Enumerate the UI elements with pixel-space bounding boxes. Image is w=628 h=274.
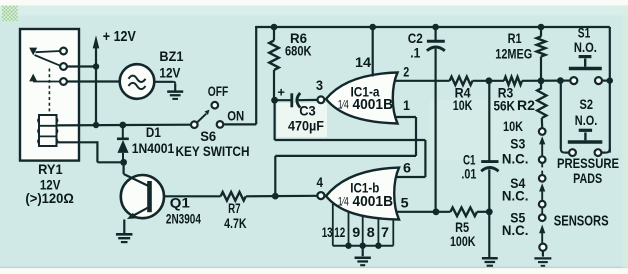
svg-text:10K: 10K (453, 98, 473, 113)
svg-text:R5: R5 (455, 219, 469, 235)
svg-text:KEY SWITCH: KEY SWITCH (176, 143, 250, 159)
svg-text:N.O.: N.O. (575, 112, 598, 128)
svg-text:3: 3 (316, 77, 323, 93)
svg-text:2: 2 (403, 63, 409, 79)
svg-text:S2: S2 (580, 96, 594, 112)
svg-text:7: 7 (381, 225, 389, 240)
svg-text:R2: R2 (517, 97, 535, 113)
svg-text:2N3904: 2N3904 (166, 210, 201, 226)
svg-text:8: 8 (367, 225, 376, 240)
svg-text:4001B: 4001B (353, 97, 394, 113)
svg-text:N.C.: N.C. (502, 188, 529, 204)
svg-text:6: 6 (403, 160, 411, 176)
svg-text:S6: S6 (200, 128, 216, 144)
svg-text:N.C.: N.C. (502, 222, 529, 238)
svg-text:Q1: Q1 (170, 195, 190, 211)
svg-text:5: 5 (401, 194, 409, 210)
svg-text:1N4001: 1N4001 (132, 140, 175, 156)
svg-text:.1: .1 (410, 46, 420, 61)
svg-text:12MEG: 12MEG (495, 47, 532, 62)
svg-text:1⁄4: 1⁄4 (338, 98, 349, 112)
svg-text:+ 12V: + 12V (103, 29, 136, 45)
svg-text:10K: 10K (503, 119, 523, 134)
svg-text:C1: C1 (463, 152, 476, 168)
svg-text:OFF: OFF (208, 83, 229, 99)
svg-text:1: 1 (403, 97, 410, 113)
svg-text:13: 13 (322, 225, 333, 240)
svg-text:D1: D1 (146, 124, 161, 140)
svg-text:R1: R1 (508, 30, 522, 46)
svg-text:56K: 56K (494, 98, 516, 113)
svg-text:100K: 100K (450, 234, 476, 249)
svg-text:(>)120Ω: (>)120Ω (25, 190, 74, 206)
svg-text:9: 9 (352, 225, 360, 240)
svg-text:RY1: RY1 (38, 161, 63, 177)
svg-text:470µF: 470µF (288, 118, 324, 133)
svg-text:BZ1: BZ1 (159, 48, 183, 64)
svg-text:S3: S3 (510, 136, 525, 152)
svg-text:4.7K: 4.7K (224, 216, 247, 231)
svg-text:C2: C2 (408, 30, 423, 46)
svg-text:.01: .01 (461, 167, 476, 182)
svg-text:PRESSURE: PRESSURE (557, 155, 619, 171)
svg-text:N.C.: N.C. (502, 151, 529, 167)
svg-text:12: 12 (334, 225, 345, 240)
svg-text:1⁄4: 1⁄4 (338, 195, 349, 209)
svg-text:ON: ON (227, 107, 244, 123)
svg-text:4: 4 (317, 174, 324, 190)
svg-text:SENSORS: SENSORS (554, 213, 609, 229)
svg-text:14: 14 (355, 54, 371, 70)
svg-text:N.O.: N.O. (574, 39, 597, 55)
svg-text:+: + (277, 85, 285, 100)
svg-text:680K: 680K (285, 44, 312, 59)
svg-text:C3: C3 (299, 102, 316, 118)
svg-text:R7: R7 (228, 201, 241, 216)
svg-text:12V: 12V (159, 65, 181, 81)
svg-text:4001B: 4001B (353, 194, 394, 210)
svg-text:PADS: PADS (573, 170, 602, 186)
